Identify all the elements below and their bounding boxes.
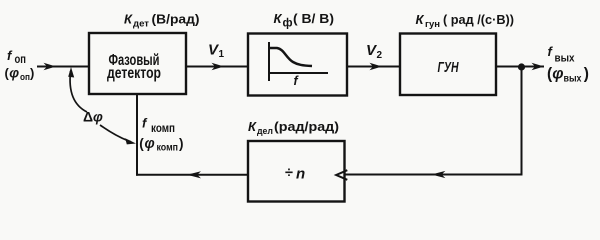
annotation label Δφ <box>83 109 103 125</box>
svg-text:дет: дет <box>133 19 149 30</box>
block U1: phase detector (Фазовый детектор) <box>89 33 186 94</box>
svg-text:φ: φ <box>145 136 155 152</box>
wire: input f_оп to phase detector <box>37 63 89 70</box>
node label f_комп (φ_комп) <box>139 116 183 154</box>
svg-text:К: К <box>416 12 425 27</box>
node label f_оп (φ_оп) <box>5 48 35 83</box>
filter horizontal axis (f axis) <box>268 73 328 88</box>
svg-text:): ) <box>30 66 34 81</box>
svg-text:ГУН: ГУН <box>438 59 460 76</box>
svg-text:вых: вых <box>555 53 576 65</box>
svg-text:2: 2 <box>377 50 383 61</box>
value label К_ф (В/В) <box>274 11 335 30</box>
svg-text:комп: комп <box>157 143 179 154</box>
svg-text:К: К <box>248 119 257 134</box>
svg-text:1: 1 <box>219 49 225 60</box>
annotation: Δφ phase-difference arc to feedback line <box>100 125 136 144</box>
junction: output node dot <box>518 63 525 70</box>
svg-text:оп: оп <box>20 72 30 83</box>
svg-text:φ: φ <box>552 66 563 83</box>
wire: phase detector output V1 to filter <box>186 63 248 70</box>
svg-text:(рад/рад): (рад/рад) <box>274 120 339 134</box>
value label К_дел (рад/рад) <box>248 119 339 137</box>
svg-text:f: f <box>142 116 148 131</box>
svg-text:f: f <box>548 44 554 59</box>
svg-text:Δ: Δ <box>83 109 93 125</box>
wire: divider output f_комп back to phase detector <box>136 94 248 178</box>
svg-text:вых: вых <box>564 73 582 85</box>
svg-text:К: К <box>274 11 283 26</box>
svg-text:φ: φ <box>9 65 19 81</box>
node label f_вых (φ_вых) <box>547 44 589 85</box>
svg-text:К: К <box>124 12 133 27</box>
block U2: loop filter (frequency response) <box>248 34 347 96</box>
svg-text:( В/ В): ( В/ В) <box>293 12 334 26</box>
filter vertical axis <box>268 42 270 81</box>
svg-text:φ: φ <box>93 109 103 125</box>
wire: feedback to divider input <box>345 171 523 178</box>
node label V2 <box>366 42 383 61</box>
wire: filter output V2 to VCO <box>347 63 400 70</box>
value label К_гун (рад/(с·В)) <box>416 12 515 30</box>
svg-text:дел: дел <box>257 126 273 137</box>
svg-text:f: f <box>7 48 13 63</box>
block U4: frequency divider (÷n) <box>248 141 345 202</box>
wire: VCO output to f_вых <box>496 63 544 70</box>
svg-text:÷: ÷ <box>285 165 293 181</box>
svg-text:f: f <box>294 74 300 88</box>
svg-text:( рад /(с·В)): ( рад /(с·В)) <box>443 13 514 27</box>
svg-text:): ) <box>584 66 589 83</box>
wire: feedback drop from output node <box>521 67 523 175</box>
filter response curve <box>270 48 312 66</box>
value label К_дет (В/рад) <box>124 12 200 30</box>
svg-text:детектор: детектор <box>107 65 161 82</box>
svg-text:гун: гун <box>425 19 440 30</box>
svg-text:комп: комп <box>151 121 175 135</box>
block U3: VCO (ГУН) <box>400 34 496 96</box>
svg-text:(В/рад): (В/рад) <box>152 13 200 27</box>
divider input open arrowhead <box>336 170 347 180</box>
svg-text:): ) <box>179 136 184 151</box>
svg-text:ф: ф <box>283 18 293 30</box>
svg-text:n: n <box>296 166 305 183</box>
node label V1 <box>208 42 225 61</box>
annotation: Δφ phase-difference arc to input line <box>68 67 87 112</box>
